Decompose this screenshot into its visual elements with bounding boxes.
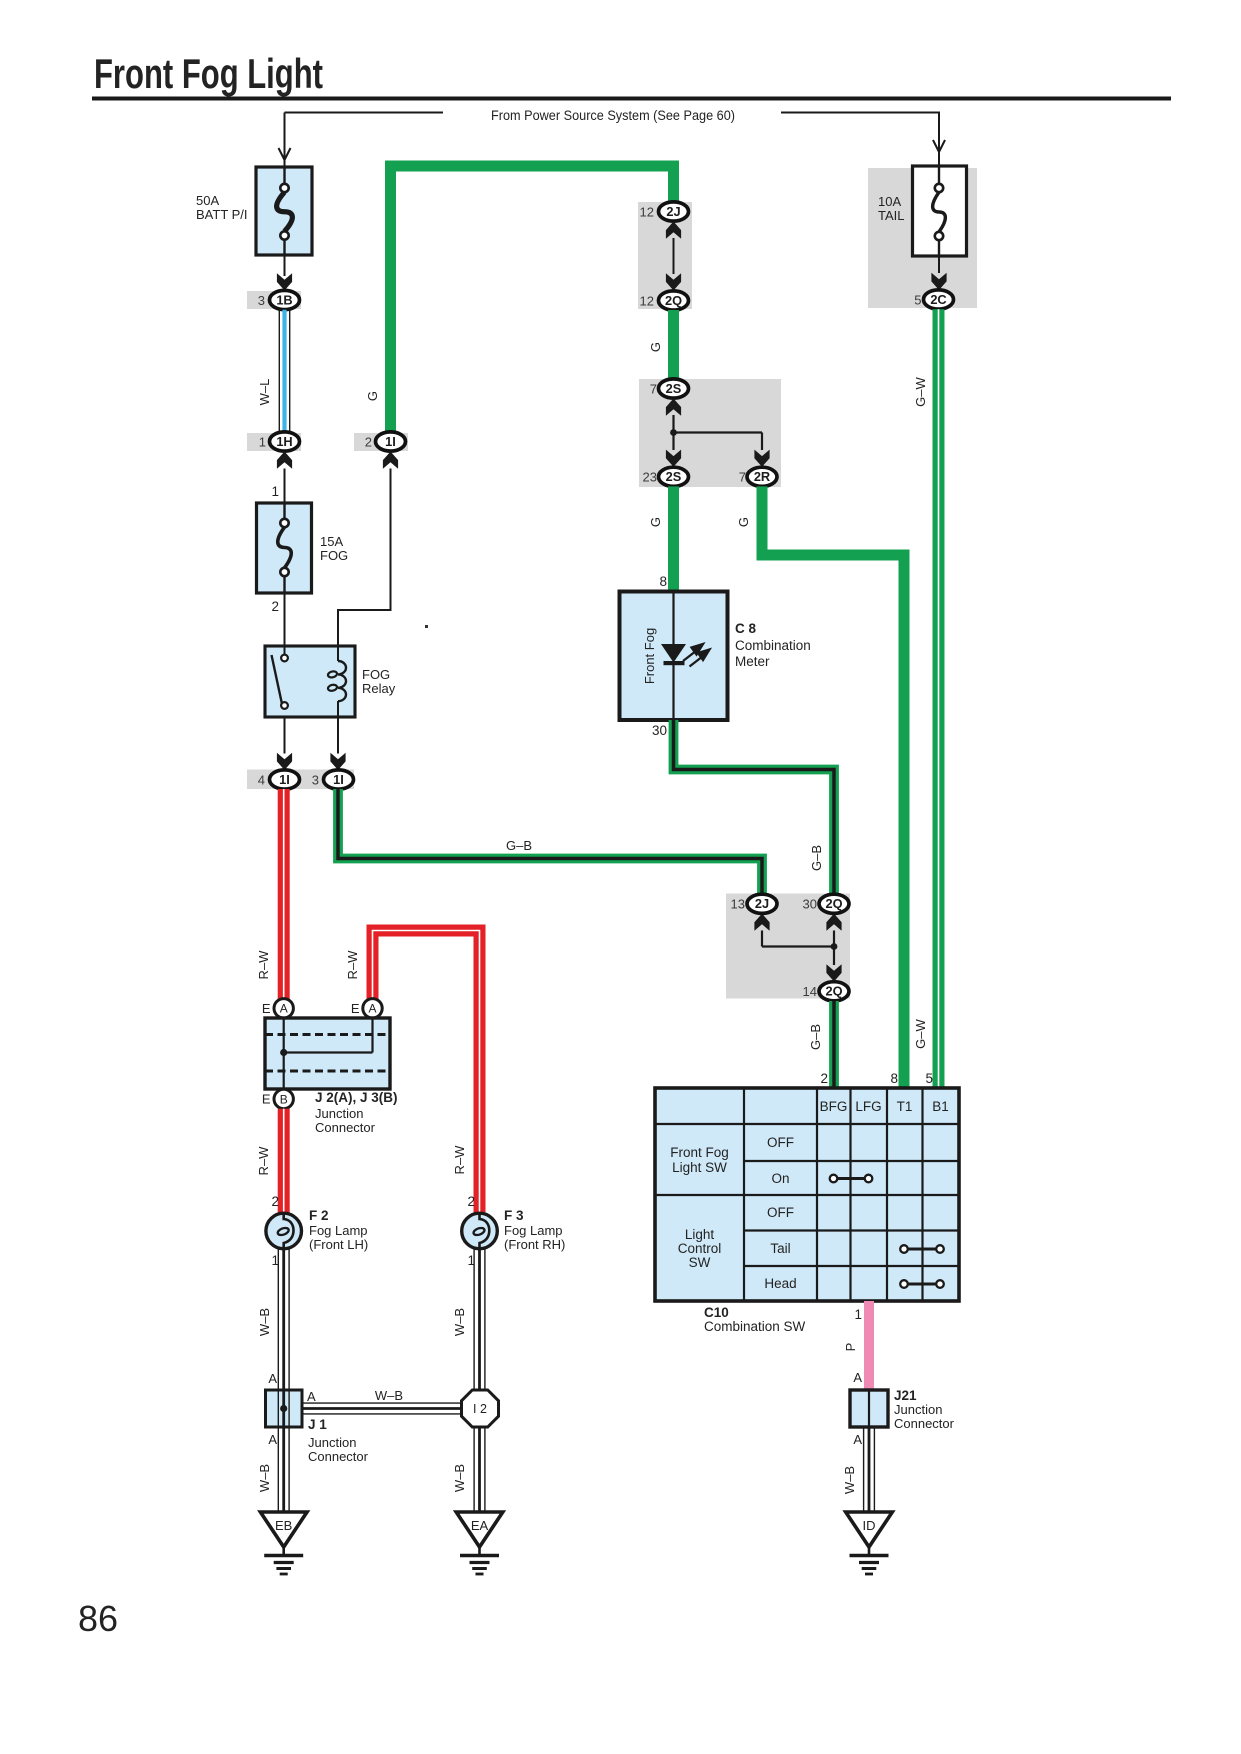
connector 5(2C) <box>914 290 953 309</box>
svg-text:Front Fog Light: Front Fog Light <box>94 50 323 97</box>
svg-text:Front Fog: Front Fog <box>670 1145 729 1160</box>
svg-text:B1: B1 <box>932 1099 949 1114</box>
svg-text:F 2: F 2 <box>309 1208 329 1223</box>
svg-text:2: 2 <box>467 1194 475 1209</box>
svg-text:E: E <box>262 1092 271 1107</box>
svg-text:1I: 1I <box>385 434 396 449</box>
svg-text:23: 23 <box>643 470 657 485</box>
svg-text:1H: 1H <box>276 434 292 449</box>
svg-text:From Power Source System (See: From Power Source System (See Page 60) <box>491 108 735 123</box>
wire G-B from 3(1I) to 13(2J) <box>338 789 762 894</box>
svg-text:W–B: W–B <box>257 1464 272 1492</box>
wire 1H to fuse FOG <box>284 469 286 504</box>
svg-text:1: 1 <box>854 1307 862 1322</box>
wire G between 2Q and 2S <box>668 310 679 380</box>
svg-text:15A: 15A <box>320 534 343 549</box>
fuse 50A BATT P/I <box>256 167 312 255</box>
svg-text:30: 30 <box>803 897 817 912</box>
wire R-W from junction connector to F3 <box>373 931 480 1214</box>
connector 2(1I) <box>354 433 408 451</box>
svg-text:Control: Control <box>678 1241 722 1256</box>
svg-text:2: 2 <box>820 1071 828 1086</box>
svg-text:8: 8 <box>659 574 667 589</box>
svg-text:12: 12 <box>640 204 654 219</box>
svg-text:G–B: G–B <box>808 1024 823 1050</box>
wire R-W from 4(1I) to junction connector <box>278 789 290 999</box>
svg-text:14: 14 <box>803 984 817 999</box>
svg-text:13: 13 <box>731 897 745 912</box>
svg-text:G–B: G–B <box>809 845 824 871</box>
svg-text:3: 3 <box>312 772 319 787</box>
svg-text:G–W: G–W <box>913 376 928 406</box>
svg-text:Junction: Junction <box>315 1106 363 1121</box>
svg-text:EA: EA <box>471 1518 489 1533</box>
wire G from 23(2S) to combination meter <box>668 486 679 592</box>
svg-text:5: 5 <box>914 292 921 307</box>
node junction in 2Q block <box>761 931 763 947</box>
svg-text:F 3: F 3 <box>504 1208 524 1223</box>
svg-text:R–W: R–W <box>256 950 271 980</box>
svg-text:SW: SW <box>689 1255 711 1270</box>
svg-text:A: A <box>280 1002 288 1016</box>
wire G-B from 14(2Q) to combination switch <box>829 1001 839 1088</box>
switch C10 Combination SW <box>655 1088 959 1301</box>
svg-text:E: E <box>262 1001 271 1016</box>
svg-text:Tail: Tail <box>770 1241 790 1256</box>
svg-text:Light: Light <box>685 1227 715 1242</box>
svg-text:Fog Lamp: Fog Lamp <box>309 1223 368 1238</box>
svg-text:W–B: W–B <box>452 1464 467 1492</box>
svg-text:Front Fog: Front Fog <box>642 628 657 684</box>
wire fuse FOG to relay <box>284 593 286 648</box>
svg-text:2Q: 2Q <box>825 984 842 999</box>
svg-text:7: 7 <box>650 381 657 396</box>
svg-text:2R: 2R <box>754 469 770 484</box>
svg-text:G: G <box>648 517 663 527</box>
wire W-B from I2 to ground EA <box>473 1427 475 1512</box>
connector 4(1I) and 3(1I) <box>247 770 354 790</box>
svg-text:10A: 10A <box>878 194 901 209</box>
wire W-L <box>278 310 280 432</box>
svg-text:OFF: OFF <box>767 1135 794 1150</box>
svg-text:1B: 1B <box>276 292 292 307</box>
svg-text:C 8: C 8 <box>735 621 757 636</box>
wire power feed right <box>781 112 940 114</box>
svg-text:Junction: Junction <box>894 1402 942 1417</box>
svg-text:2: 2 <box>271 599 279 614</box>
svg-text:G–W: G–W <box>913 1018 928 1048</box>
svg-text:T1: T1 <box>897 1099 913 1114</box>
svg-text:(Front RH): (Front RH) <box>504 1237 565 1252</box>
svg-text:Combination SW: Combination SW <box>704 1319 806 1334</box>
connector I2 octagon <box>462 1390 499 1427</box>
svg-text:Connector: Connector <box>308 1449 369 1464</box>
svg-text:A: A <box>307 1389 316 1404</box>
svg-text:30: 30 <box>652 723 667 738</box>
wire G-B from C8 pin 30 to 30(2Q) <box>674 720 835 894</box>
junction connector J21 <box>850 1390 888 1427</box>
svg-text:8: 8 <box>890 1071 898 1086</box>
svg-text:2C: 2C <box>930 292 946 307</box>
svg-text:FOG: FOG <box>362 667 390 682</box>
svg-text:G: G <box>365 391 380 401</box>
relay FOG Relay <box>265 646 355 717</box>
svg-text:(Front LH): (Front LH) <box>309 1237 368 1252</box>
wire W-B from F2 to ground EB <box>277 1249 279 1512</box>
svg-text:86: 86 <box>78 1598 118 1639</box>
svg-text:J 1: J 1 <box>308 1417 327 1432</box>
svg-text:Relay: Relay <box>362 681 396 696</box>
wire G from 7(2R) to combination switch <box>762 486 904 1088</box>
wire power feed left <box>285 112 444 114</box>
connector block 2S 2R <box>639 379 781 487</box>
svg-text:LFG: LFG <box>855 1099 881 1114</box>
stray dot <box>425 625 428 628</box>
svg-text:R–W: R–W <box>452 1145 467 1175</box>
wire W-B from F3 to I2 <box>473 1249 475 1390</box>
svg-text:2J: 2J <box>755 896 769 911</box>
contact Light Control Head <box>904 1283 940 1286</box>
relay coil <box>337 646 339 661</box>
node junction in 2S block <box>672 415 674 450</box>
svg-text:2J: 2J <box>666 204 680 219</box>
svg-text:Fog Lamp: Fog Lamp <box>504 1223 563 1238</box>
svg-text:Connector: Connector <box>315 1120 376 1135</box>
ground EB <box>260 1512 307 1547</box>
svg-text:B: B <box>280 1092 288 1106</box>
svg-text:P: P <box>843 1343 858 1352</box>
svg-text:W–L: W–L <box>257 379 272 406</box>
svg-text:Connector: Connector <box>894 1416 955 1431</box>
fog lamp F3 <box>462 1213 498 1249</box>
svg-text:1: 1 <box>271 484 279 499</box>
svg-text:12: 12 <box>640 293 654 308</box>
svg-text:OFF: OFF <box>767 1205 794 1220</box>
svg-text:W–B: W–B <box>842 1466 857 1494</box>
contact Light Control Tail <box>904 1248 940 1251</box>
svg-text:2Q: 2Q <box>825 896 842 911</box>
svg-text:EB: EB <box>275 1518 292 1533</box>
fuse 15A FOG <box>257 503 312 593</box>
meter C8 Combination Meter <box>620 592 728 721</box>
wire relay to 4(1I) <box>284 717 286 754</box>
svg-text:Light SW: Light SW <box>672 1160 727 1175</box>
arrow into 3(1B) <box>277 273 292 290</box>
svg-text:TAIL: TAIL <box>878 208 905 223</box>
svg-text:7: 7 <box>739 470 746 485</box>
wire W-B from J1 to I2 <box>302 1402 462 1404</box>
fuse 10A TAIL <box>868 168 977 308</box>
ground EA <box>456 1512 503 1547</box>
wire G thick from fog switch feed to 12(2J) <box>391 166 674 433</box>
svg-text:G–B: G–B <box>506 838 532 853</box>
svg-text:2S: 2S <box>666 469 682 484</box>
svg-text:E: E <box>351 1001 360 1016</box>
wire fuse to 3(1B) <box>284 255 286 276</box>
svg-text:2Q: 2Q <box>665 293 682 308</box>
svg-text:A: A <box>268 1371 277 1386</box>
svg-text:5: 5 <box>925 1071 933 1086</box>
junction connector J1 <box>266 1390 303 1427</box>
svg-text:ID: ID <box>863 1518 876 1533</box>
svg-text:2: 2 <box>271 1194 279 1209</box>
svg-text:G: G <box>648 342 663 352</box>
svg-text:R–W: R–W <box>345 950 360 980</box>
svg-text:C10: C10 <box>704 1305 729 1320</box>
svg-text:A: A <box>853 1370 862 1385</box>
LED light arrows <box>683 644 710 667</box>
svg-text:4: 4 <box>258 772 265 787</box>
wire W-B from J21 to ground ID <box>863 1427 865 1512</box>
svg-text:1I: 1I <box>279 772 290 787</box>
svg-text:J21: J21 <box>894 1388 917 1403</box>
svg-text:A: A <box>853 1432 862 1447</box>
svg-text:G: G <box>736 517 751 527</box>
svg-text:W–B: W–B <box>257 1308 272 1336</box>
connector block 12(2J) 12(2Q) <box>638 202 692 309</box>
wire fuse TAIL to 5(2C) <box>938 256 940 273</box>
svg-text:2: 2 <box>365 434 372 449</box>
svg-text:1I: 1I <box>333 772 344 787</box>
fog lamp F2 <box>266 1213 302 1249</box>
indicator LED Front Fog <box>672 592 674 645</box>
title rule <box>92 97 1171 101</box>
svg-text:J 2(A), J 3(B): J 2(A), J 3(B) <box>315 1090 398 1105</box>
wire 2(1I) to relay coil <box>338 469 391 649</box>
connector block 13(2J) 30(2Q) 14(2Q) <box>726 894 850 999</box>
wire P from C10 to J21 <box>864 1301 874 1390</box>
svg-text:W–B: W–B <box>452 1308 467 1336</box>
arrow out of 2(1I) <box>383 452 398 469</box>
svg-text:FOG: FOG <box>320 548 348 563</box>
relay switch contact <box>284 646 286 654</box>
svg-text:Meter: Meter <box>735 654 770 669</box>
svg-text:50A: 50A <box>196 193 219 208</box>
svg-text:Combination: Combination <box>735 638 811 653</box>
svg-text:BFG: BFG <box>820 1099 848 1114</box>
svg-text:Junction: Junction <box>308 1435 356 1450</box>
svg-text:W–B: W–B <box>375 1388 403 1403</box>
contact Front Fog On <box>834 1177 869 1180</box>
connector 3(1B) <box>247 291 301 309</box>
svg-text:On: On <box>771 1171 789 1186</box>
arrow out of 1(1H) <box>277 452 292 469</box>
svg-text:3: 3 <box>258 293 265 308</box>
svg-text:A: A <box>268 1432 277 1447</box>
svg-text:R–W: R–W <box>256 1146 271 1176</box>
wire relay to 3(1I) <box>337 717 339 754</box>
svg-text:Head: Head <box>764 1276 796 1291</box>
ground ID <box>846 1512 893 1547</box>
wire G-W from 5(2C) to combination switch <box>933 309 945 1088</box>
connector 1(1H) <box>247 433 301 451</box>
svg-text:1: 1 <box>259 434 266 449</box>
wire R-W from junction connector to F2 <box>278 1109 290 1213</box>
svg-text:2S: 2S <box>666 381 682 396</box>
svg-text:A: A <box>368 1002 376 1016</box>
svg-text:I 2: I 2 <box>473 1402 487 1416</box>
svg-text:BATT P/I: BATT P/I <box>196 207 248 222</box>
